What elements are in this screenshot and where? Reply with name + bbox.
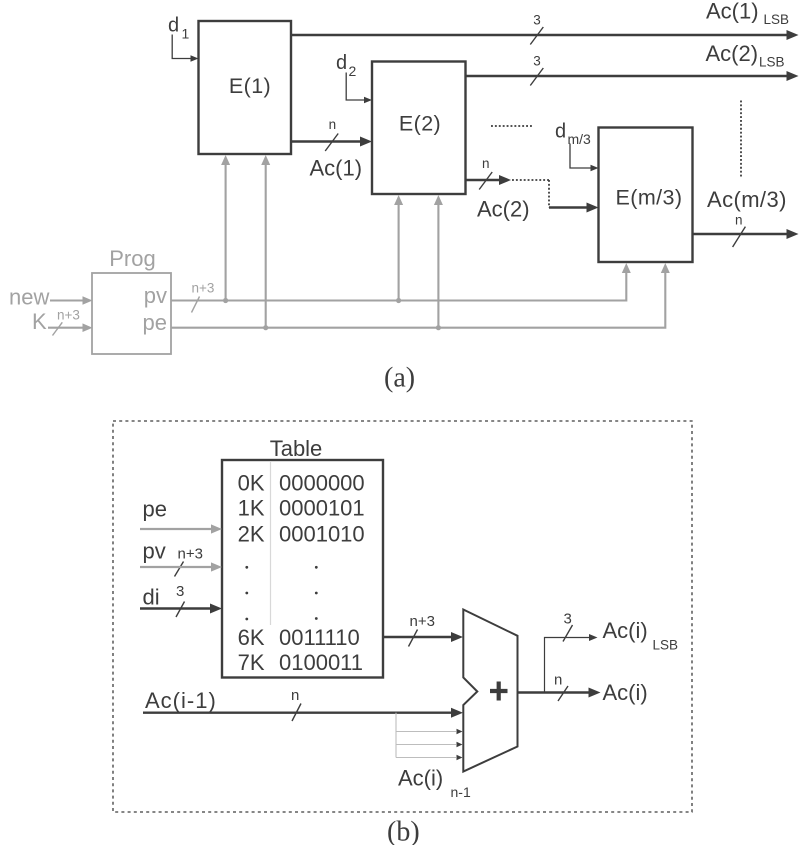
label Ac(1)LSB	[706, 0, 789, 27]
wire di arrow into table	[140, 604, 222, 614]
svg-text:Ac(i): Ac(i)	[398, 766, 443, 791]
wire Ac(1)LSB output	[291, 30, 799, 40]
junction pe-E1	[263, 325, 268, 330]
svg-text:n: n	[482, 156, 490, 171]
block E3 E(m/3)	[599, 128, 693, 263]
slash n on output	[554, 672, 568, 702]
svg-text:0001010: 0001010	[279, 522, 365, 547]
wire pv bus	[171, 263, 631, 301]
svg-text:Ac(2): Ac(2)	[477, 197, 530, 222]
svg-text:0000000: 0000000	[279, 471, 365, 496]
wire Ac(2) out of E2	[466, 175, 512, 185]
svg-text:LSB: LSB	[759, 55, 785, 70]
slash n on Ac(2)	[479, 156, 492, 190]
wire feedback branch 1	[396, 729, 463, 734]
svg-text:Ac(1): Ac(1)	[310, 156, 363, 181]
table divider	[270, 461, 272, 625]
svg-text:n: n	[554, 672, 562, 689]
slash 3 on di	[176, 583, 185, 617]
svg-text:2: 2	[349, 63, 357, 79]
wire pe to E1	[261, 155, 270, 328]
svg-text:3: 3	[564, 611, 572, 628]
wire dotted vert to E3 input	[548, 180, 550, 208]
junction pe-E2	[436, 325, 441, 330]
adder U1	[463, 610, 517, 772]
label Ac(i)LSB	[603, 618, 679, 653]
wire table output to adder	[383, 632, 463, 642]
block E2	[372, 62, 466, 195]
wire dotted horiz after Ac(2)	[512, 179, 549, 181]
slash n+3 on K	[53, 308, 80, 336]
wire adder output Ac(i)	[518, 688, 601, 698]
slash n on Ac(m/3)	[733, 213, 746, 248]
svg-text:n+3: n+3	[178, 546, 203, 563]
svg-text:K: K	[32, 309, 47, 334]
block Table	[222, 436, 383, 678]
junction pv-E1	[223, 298, 228, 303]
wire new arrow	[50, 296, 93, 305]
svg-text:0011110: 0011110	[279, 625, 360, 650]
svg-text:(b): (b)	[387, 817, 420, 845]
wire LSB branch	[545, 634, 598, 693]
svg-text:0100011: 0100011	[279, 650, 363, 675]
svg-text:(a): (a)	[384, 363, 415, 394]
svg-text:Ac(1): Ac(1)	[706, 0, 759, 24]
svg-text:0000101: 0000101	[279, 496, 365, 521]
table ellipsis dots	[245, 566, 317, 621]
dotted frame	[113, 421, 692, 812]
svg-text:3: 3	[533, 54, 541, 69]
slash n on Ac(i-1)	[291, 687, 301, 721]
svg-text:Table: Table	[270, 436, 323, 461]
wire Ac(i-1) into adder	[143, 708, 463, 718]
wire feedback branch 2	[396, 742, 463, 747]
wire dm3 elbow	[570, 144, 599, 172]
svg-text:E(m/3): E(m/3)	[616, 186, 683, 210]
slash n on Ac(1)	[325, 117, 338, 151]
wire pv to E2	[394, 195, 403, 301]
wire d2 elbow	[346, 73, 372, 104]
svg-text:pe: pe	[143, 497, 167, 522]
svg-text:pv: pv	[144, 283, 167, 308]
svg-text:n: n	[291, 687, 299, 704]
svg-text:n-1: n-1	[451, 784, 471, 800]
block E1	[199, 21, 292, 154]
slash 3 on Ac(1)LSB	[530, 13, 543, 45]
label d m/3	[555, 121, 591, 148]
wire feedback vertical	[395, 713, 397, 758]
wire pv to E1	[221, 155, 230, 301]
svg-text:new: new	[9, 285, 49, 310]
svg-text:di: di	[143, 585, 160, 610]
wire Ac(m/3) output	[693, 229, 799, 239]
svg-text:E(1): E(1)	[229, 74, 271, 98]
svg-text:n+3: n+3	[192, 281, 215, 296]
svg-text:d: d	[168, 15, 179, 37]
svg-text:Ac(i): Ac(i)	[603, 680, 648, 705]
svg-text:n+3: n+3	[57, 308, 80, 323]
svg-text:n: n	[329, 117, 337, 132]
slash 3 on Ac(2)LSB	[530, 54, 543, 86]
svg-text:1: 1	[182, 26, 190, 42]
wire Ac(2)LSB output	[466, 71, 799, 81]
wire d1 elbow	[172, 35, 198, 62]
wire dotted continuation mid	[491, 125, 533, 127]
svg-text:Ac(2): Ac(2)	[706, 41, 759, 66]
wire pv arrow into table	[140, 562, 222, 571]
table rows	[238, 471, 365, 676]
label Ac(2)LSB	[706, 41, 785, 70]
svg-text:Prog: Prog	[109, 246, 155, 271]
svg-text:m/3: m/3	[568, 131, 592, 147]
svg-text:3: 3	[176, 583, 184, 600]
slash 3 on LSB branch	[563, 611, 573, 642]
slash n+3 on pv	[192, 281, 215, 313]
svg-text:LSB: LSB	[764, 12, 790, 27]
slash n+3 on table output	[409, 613, 435, 647]
svg-text:Ac(i): Ac(i)	[603, 618, 648, 643]
svg-text:2K: 2K	[238, 522, 265, 547]
block Prog	[92, 246, 171, 354]
slash n+3 on pv (b)	[175, 546, 203, 577]
svg-text:pv: pv	[143, 539, 166, 564]
svg-text:Ac(i-1): Ac(i-1)	[145, 688, 217, 713]
svg-text:6K: 6K	[238, 625, 265, 650]
wire K arrow	[48, 323, 93, 332]
wire pe bus	[171, 263, 670, 328]
svg-text:7K: 7K	[238, 650, 265, 675]
label d1	[168, 15, 190, 42]
svg-text:n+3: n+3	[410, 613, 435, 630]
svg-text:d: d	[555, 121, 566, 143]
wire Ac(1) E1 to E2	[291, 137, 372, 147]
svg-text:E(2): E(2)	[399, 112, 441, 136]
label d2	[336, 52, 357, 79]
svg-text:n: n	[735, 213, 743, 228]
label Ac(i) n-1 feedback	[398, 766, 471, 801]
wire arrow into E3	[549, 203, 599, 213]
svg-text:1K: 1K	[238, 496, 265, 521]
svg-text:pe: pe	[143, 310, 167, 335]
wire pe arrow into table	[140, 524, 222, 533]
svg-text:3: 3	[533, 13, 541, 28]
wire dotted continuation right vertical	[740, 101, 742, 178]
svg-text:LSB: LSB	[653, 638, 679, 653]
junction pv-E2	[396, 298, 401, 303]
wire feedback branch 3	[396, 755, 463, 760]
wire pe to E2	[434, 195, 443, 328]
svg-text:0K: 0K	[238, 471, 265, 496]
svg-text:d: d	[336, 52, 347, 74]
svg-text:Ac(m/3): Ac(m/3)	[707, 187, 787, 212]
